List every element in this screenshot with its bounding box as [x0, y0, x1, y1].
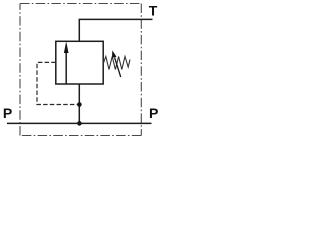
enclosure boundary right edge (dash-dot) [140, 4, 142, 136]
svg-text:T: T [149, 3, 158, 19]
flow arrow head [64, 41, 69, 53]
svg-text:P: P [3, 105, 12, 121]
svg-text:P: P [149, 105, 158, 121]
junction dot on pilot/drain node [77, 102, 82, 107]
wire: T port line with corner down to valve top [79, 19, 152, 41]
adjustment arrow head [112, 50, 117, 58]
spring (zigzag) [103, 57, 130, 70]
valve body square [56, 41, 103, 84]
wire: valve bottom to P line [78, 84, 80, 123]
wire: P port line [7, 122, 152, 124]
flow arrow shaft inside valve [65, 52, 67, 84]
enclosure boundary left edge (dash-dot) [19, 4, 21, 136]
enclosure boundary top edge (dash-dot) [20, 3, 141, 5]
pilot line (dashed) [37, 62, 79, 104]
enclosure boundary bottom edge (dash-dot) [20, 135, 141, 137]
junction dot on P line [77, 121, 82, 126]
adjustment arrow shaft across spring [115, 58, 121, 78]
